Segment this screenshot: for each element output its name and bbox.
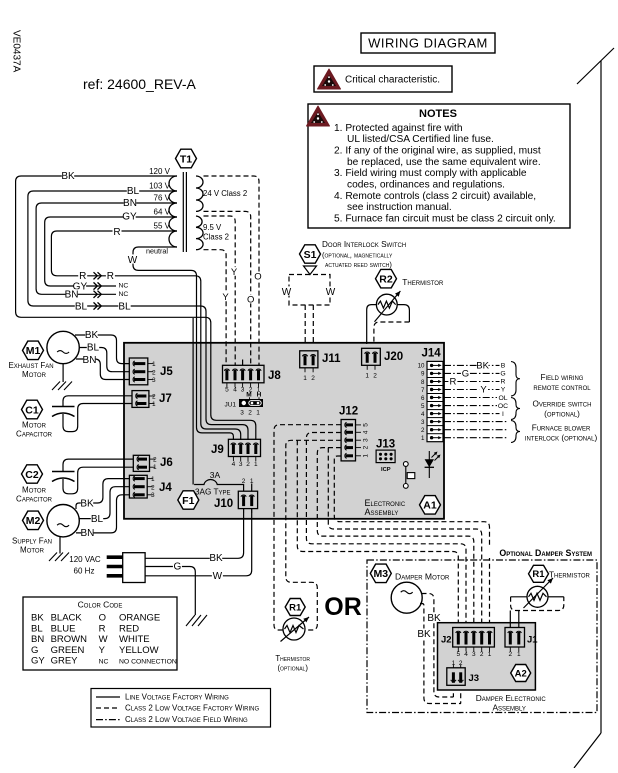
- 120VAC label: [69, 555, 101, 576]
- svg-text:Line Voltage Factory Wiring: Line Voltage Factory Wiring: [125, 693, 229, 702]
- wire M3 BK to J3 pin2: [420, 604, 461, 704]
- jumper JU1: [224, 392, 263, 417]
- 120VAC plug: [107, 553, 145, 583]
- svg-text:Damper Motor: Damper Motor: [395, 572, 450, 582]
- svg-text:3: 3: [421, 419, 425, 426]
- svg-text:Override switch: Override switch: [533, 400, 592, 409]
- neutral label: [146, 247, 168, 256]
- svg-text:1: 1: [250, 478, 254, 485]
- capacitor C2 designator: [22, 465, 43, 483]
- svg-text:9.5 V: 9.5 V: [203, 223, 222, 232]
- M1 label: [8, 361, 53, 379]
- capacitor C2: [52, 472, 75, 482]
- svg-text:7: 7: [421, 387, 425, 394]
- exhaust fan motor M1: [47, 331, 79, 363]
- label O lower: [246, 295, 255, 306]
- svg-text:BK: BK: [31, 613, 44, 624]
- connector J5: [129, 358, 173, 385]
- svg-text:JU1: JU1: [224, 402, 236, 409]
- label M1 BK: [85, 329, 99, 340]
- thermistor R2 designator: [376, 269, 397, 288]
- svg-text:4: 4: [363, 430, 370, 434]
- svg-text:3: 3: [240, 410, 244, 417]
- label R J14-8: [448, 377, 457, 388]
- svg-text:3: 3: [239, 461, 243, 468]
- svg-text:2: 2: [480, 651, 484, 658]
- svg-text:4: 4: [464, 651, 468, 658]
- wire S1 to J11 pin2: [312, 305, 314, 344]
- svg-text:RED: RED: [119, 623, 139, 634]
- J8 pin3 stub: [242, 360, 244, 366]
- svg-text:GY: GY: [31, 656, 45, 667]
- wire BK branch to fuse F1: [192, 318, 194, 485]
- R1 label: [275, 654, 310, 673]
- capacitor C1 designator: [22, 400, 43, 419]
- svg-text:G: G: [174, 562, 182, 573]
- svg-text:Motor: Motor: [22, 486, 47, 495]
- wire branch J12 pin3 to damper J2 pin5: [297, 440, 458, 627]
- wire BN 76V primary tap (NC): [36, 203, 177, 294]
- svg-text:Assembly: Assembly: [365, 507, 399, 517]
- svg-text:76 V: 76 V: [154, 194, 171, 203]
- svg-text:BN: BN: [65, 290, 79, 301]
- wire GY 64V primary tap (NC): [45, 217, 177, 286]
- connector row R-R: [78, 271, 115, 282]
- svg-text:2: 2: [459, 660, 463, 667]
- svg-text:NC: NC: [118, 283, 128, 290]
- svg-text:R: R: [501, 379, 506, 386]
- label M2 BK: [80, 498, 94, 509]
- svg-text:2: 2: [152, 369, 156, 376]
- svg-text:OC: OC: [498, 403, 508, 410]
- transformer T1: [169, 172, 203, 252]
- svg-text:5: 5: [363, 423, 370, 427]
- connector J2: [441, 628, 494, 659]
- thermistor R1 symbol: [281, 617, 310, 642]
- svg-text:G: G: [31, 645, 38, 656]
- svg-text:3: 3: [472, 651, 476, 658]
- brace override switch: [511, 398, 591, 420]
- ground M2: [49, 537, 69, 562]
- title box WIRING DIAGRAM: [361, 33, 495, 53]
- wire M2 BL to J4 pin2: [79, 487, 129, 519]
- wire plug G to ground: [145, 567, 195, 616]
- svg-text:Class 2: Class 2: [203, 233, 229, 242]
- label GY: [122, 211, 137, 222]
- supply fan motor M2: [47, 505, 79, 537]
- svg-text:be replaced, use the same equi: be replaced, use the same equivalent wir…: [347, 157, 541, 168]
- svg-text:B: B: [501, 363, 506, 370]
- svg-text:OR: OR: [324, 593, 362, 621]
- svg-text:1: 1: [153, 464, 157, 471]
- svg-text:Damper Electronic: Damper Electronic: [476, 693, 547, 703]
- svg-text:Class 2 Low Voltage Field Wiri: Class 2 Low Voltage Field Wiring: [125, 715, 248, 724]
- ground M1: [52, 364, 72, 390]
- primary tap voltage labels: [149, 167, 171, 231]
- svg-text:O: O: [254, 272, 261, 283]
- svg-text:R1: R1: [532, 569, 545, 580]
- wire J12 pin5 to optional thermistor R1 left: [274, 425, 341, 630]
- wire C1 top to J7 pin2: [63, 396, 132, 407]
- svg-text:Motor: Motor: [22, 421, 47, 430]
- svg-text:Capacitor: Capacitor: [16, 430, 53, 439]
- svg-text:BL: BL: [127, 186, 140, 197]
- svg-text:M2: M2: [26, 515, 41, 527]
- connector J8: [223, 365, 282, 393]
- wire R 55V primary tap: [51, 231, 240, 440]
- LED D1: [425, 451, 441, 478]
- svg-text:Motor: Motor: [20, 546, 45, 555]
- svg-text:BK: BK: [61, 171, 75, 182]
- svg-text:1: 1: [488, 651, 492, 658]
- svg-text:R1: R1: [289, 602, 302, 613]
- brace field wiring remote control: [511, 362, 591, 397]
- wire BK 120V primary tap: [16, 176, 256, 440]
- connector row BN-NC: [65, 289, 131, 300]
- R2 label: [402, 277, 444, 287]
- svg-text:Exhaust Fan: Exhaust Fan: [8, 361, 53, 370]
- svg-text:J10: J10: [214, 498, 233, 510]
- label BN: [123, 198, 137, 209]
- svg-text:103 V: 103 V: [149, 182, 171, 191]
- svg-text:2: 2: [246, 461, 250, 468]
- svg-text:Critical characteristic.: Critical characteristic.: [345, 75, 440, 86]
- fuse F1: [194, 470, 244, 497]
- connector J4: [129, 475, 172, 499]
- svg-text:BROWN: BROWN: [51, 634, 88, 645]
- damper R1 label: [549, 571, 591, 580]
- svg-text:1: 1: [363, 454, 370, 458]
- svg-text:BN: BN: [80, 528, 94, 539]
- label Y lower: [221, 292, 230, 303]
- label plug W: [212, 571, 223, 582]
- svg-text:64 V: 64 V: [154, 208, 171, 217]
- svg-text:BL: BL: [87, 342, 100, 353]
- wire R2 right lead to J20 pin2: [397, 305, 409, 322]
- svg-text:WHITE: WHITE: [119, 634, 150, 645]
- damper thermistor R1 leads: [511, 596, 527, 598]
- svg-text:2: 2: [508, 651, 512, 658]
- critical characteristic box: [314, 66, 452, 92]
- wire M1 BL to J5 pin2: [79, 348, 129, 372]
- svg-text:Thermistor: Thermistor: [402, 277, 444, 287]
- J10 pin1 stub: [251, 484, 253, 492]
- svg-text:J20: J20: [384, 351, 403, 363]
- svg-text:BN: BN: [83, 355, 97, 366]
- svg-text:2: 2: [153, 457, 157, 464]
- label M2 BN: [80, 528, 94, 539]
- svg-text:4: 4: [233, 387, 237, 394]
- svg-text:Y: Y: [222, 292, 229, 303]
- connector J7: [132, 391, 172, 408]
- electronic assembly board A1: [124, 343, 444, 519]
- svg-text:BLUE: BLUE: [51, 623, 76, 634]
- svg-text:Y: Y: [480, 385, 487, 396]
- wire M3 BK to J3 pin1: [422, 594, 454, 698]
- svg-text:4: 4: [232, 461, 236, 468]
- svg-text:BK: BK: [85, 330, 99, 341]
- svg-text:3: 3: [152, 377, 156, 384]
- svg-text:1. Protected against fire with: 1. Protected against fire with: [334, 123, 463, 134]
- svg-text:NOTES: NOTES: [419, 108, 457, 120]
- svg-text:O: O: [247, 295, 254, 306]
- svg-text:W: W: [213, 571, 223, 582]
- svg-text:W: W: [99, 634, 108, 645]
- svg-text:1: 1: [303, 375, 307, 382]
- svg-text:actuated reed switch): actuated reed switch): [325, 260, 392, 269]
- svg-text:NO CONNECTION: NO CONNECTION: [119, 659, 177, 666]
- svg-text:GY: GY: [122, 211, 137, 222]
- svg-text:5. Furnace fan circuit must be: 5. Furnace fan circuit must be class 2 c…: [334, 213, 556, 224]
- svg-text:J5: J5: [160, 366, 173, 378]
- svg-text:2: 2: [242, 478, 246, 485]
- svg-text:1: 1: [152, 361, 156, 368]
- color code box: [23, 597, 177, 670]
- svg-text:24 V Class 2: 24 V Class 2: [203, 189, 247, 198]
- svg-text:BL: BL: [31, 623, 43, 634]
- M3 label: [395, 572, 450, 582]
- svg-text:BN: BN: [123, 198, 137, 209]
- transformer T1 designator: [176, 149, 197, 168]
- connector J3: [447, 660, 479, 685]
- svg-text:J11: J11: [322, 353, 341, 365]
- wire J12 pin1 to damper J2 pin1: [334, 456, 489, 628]
- svg-text:W: W: [326, 287, 336, 298]
- S1 reed switch symbol: [289, 266, 330, 305]
- svg-text:BL: BL: [118, 301, 131, 312]
- label BK: [61, 170, 75, 181]
- label M3 BK lower: [417, 629, 431, 640]
- svg-text:YELLOW: YELLOW: [119, 645, 159, 656]
- wire M2 BK to J4 pin1: [76, 479, 129, 509]
- svg-text:55 V: 55 V: [154, 222, 171, 231]
- wire O 24V top to J8 pin1: [204, 176, 260, 365]
- svg-text:J8: J8: [268, 370, 281, 382]
- wire M1 BK to J5 pin1: [75, 335, 129, 364]
- wire W neutral: [133, 247, 233, 440]
- svg-text:Door Interlock Switch: Door Interlock Switch: [322, 240, 406, 249]
- wire plug BK to J10 pin2: [145, 509, 244, 559]
- wire M2 BN to J4 pin3: [76, 495, 129, 533]
- svg-text:ICP: ICP: [381, 467, 391, 473]
- svg-text:ORANGE: ORANGE: [119, 613, 160, 624]
- damper assembly label: [476, 693, 547, 713]
- svg-text:1: 1: [365, 373, 369, 380]
- svg-text:Class 2 Low Voltage Factory Wi: Class 2 Low Voltage Factory Wiring: [125, 704, 259, 713]
- svg-text:A1: A1: [423, 500, 437, 512]
- wire O 24V bottom to J8 pin2: [204, 211, 251, 365]
- svg-text:BN: BN: [31, 634, 44, 645]
- svg-text:R: R: [99, 623, 106, 634]
- wire J12 pin4 to damper J2 pin4: [306, 433, 466, 628]
- wires to J1: [509, 611, 511, 629]
- connector J13: [376, 439, 395, 474]
- svg-text:5: 5: [456, 651, 460, 658]
- svg-text:GREEN: GREEN: [51, 645, 85, 656]
- label plug BK: [209, 553, 223, 564]
- label BK J14-10: [476, 361, 489, 372]
- connector J9: [211, 439, 261, 468]
- OR text: [324, 593, 362, 621]
- label R: [113, 226, 122, 237]
- svg-text:M1: M1: [26, 345, 41, 357]
- connector J11: [300, 351, 341, 382]
- capacitor C1: [52, 407, 75, 417]
- svg-text:BK: BK: [417, 629, 431, 640]
- svg-text:1: 1: [421, 435, 425, 442]
- svg-text:I: I: [502, 411, 504, 418]
- ref label: [83, 76, 197, 92]
- svg-text:W: W: [282, 287, 292, 298]
- label Y J14-7: [479, 385, 488, 396]
- svg-text:Optional Damper System: Optional Damper System: [499, 548, 592, 558]
- svg-text:J12: J12: [339, 406, 358, 418]
- svg-text:Thermistor: Thermistor: [275, 654, 310, 663]
- damper motor M3: [391, 582, 422, 613]
- wire R2 left lead to J20 pin1: [367, 305, 377, 344]
- J14 field wiring dash-dot leads: [444, 365, 508, 437]
- svg-text:3: 3: [363, 438, 370, 442]
- connector row BL-BL: [75, 301, 131, 312]
- label G J14-9: [461, 369, 470, 380]
- svg-text:5: 5: [225, 387, 229, 394]
- svg-text:Furnace blower: Furnace blower: [532, 424, 591, 433]
- sheet id VE0437A: [11, 30, 22, 73]
- svg-text:UL listed/CSA Certified line f: UL listed/CSA Certified line fuse.: [347, 134, 494, 145]
- svg-text:NC: NC: [118, 291, 128, 298]
- svg-text:4: 4: [421, 411, 425, 418]
- optional damper system title: [488, 546, 594, 558]
- svg-text:3. Field wiring must comply wi: 3. Field wiring must comply with applica…: [334, 168, 527, 179]
- svg-text:O: O: [99, 613, 106, 624]
- wire Y 9.5V bottom to J8 pin5: [204, 250, 227, 366]
- damper thermistor R1 designator: [529, 565, 549, 582]
- label O upper: [254, 272, 263, 283]
- assembly A1 designator: [420, 496, 441, 514]
- svg-text:Supply Fan: Supply Fan: [12, 537, 52, 546]
- svg-text:120 V: 120 V: [149, 167, 171, 176]
- svg-text:WIRING DIAGRAM: WIRING DIAGRAM: [368, 36, 488, 51]
- fuse F1 designator: [178, 491, 199, 509]
- svg-text:2: 2: [151, 484, 155, 491]
- label plug G: [173, 561, 182, 572]
- pushbutton SW: [403, 462, 414, 489]
- connector J14: [418, 348, 443, 442]
- wire C1 bottom to J7 pin1: [63, 404, 132, 432]
- svg-text:NC: NC: [99, 659, 109, 666]
- svg-text:1: 1: [151, 476, 155, 483]
- thermistor R1 designator: [285, 599, 305, 616]
- label W left: [281, 286, 292, 297]
- wire J12 pin2 to damper J2 pin3: [317, 448, 474, 628]
- svg-text:see instruction manual.: see instruction manual.: [347, 202, 452, 213]
- svg-text:C2: C2: [25, 469, 39, 481]
- notes box: [307, 104, 571, 228]
- svg-text:2: 2: [421, 427, 425, 434]
- svg-text:G: G: [462, 369, 469, 380]
- optional damper system enclosure: [367, 560, 597, 713]
- svg-text:1: 1: [152, 401, 156, 408]
- svg-text:J7: J7: [159, 393, 172, 405]
- connector J1: [505, 628, 538, 659]
- svg-text:J9: J9: [211, 444, 224, 456]
- motor M2 designator: [23, 511, 44, 529]
- svg-text:remote control: remote control: [533, 383, 591, 392]
- connector J20: [362, 348, 404, 379]
- svg-text:R: R: [113, 227, 120, 238]
- label BL: [127, 185, 140, 196]
- svg-text:Capacitor: Capacitor: [16, 495, 53, 504]
- secondary labels: [203, 189, 247, 242]
- connector J6: [133, 455, 172, 471]
- svg-text:J14: J14: [422, 348, 442, 360]
- svg-text:Motor: Motor: [22, 370, 47, 379]
- svg-text:BK: BK: [476, 361, 489, 372]
- svg-text:2: 2: [373, 373, 377, 380]
- svg-text:3: 3: [151, 492, 155, 499]
- wire J12 pin3 to optional thermistor R1 right: [286, 440, 341, 630]
- damper thermistor dashed box: [511, 597, 564, 611]
- ground symbol G: [186, 615, 207, 626]
- svg-text:2. If any of the original wire: 2. If any of the original wire, as suppl…: [334, 146, 541, 157]
- svg-text:J4: J4: [159, 482, 172, 494]
- legend box: [91, 689, 271, 728]
- label M2 BL: [91, 514, 104, 525]
- svg-text:neutral: neutral: [146, 247, 168, 256]
- assembly A2 designator: [511, 665, 531, 682]
- svg-text:OL: OL: [498, 395, 507, 402]
- svg-text:BK: BK: [209, 553, 223, 564]
- svg-text:BLACK: BLACK: [51, 613, 83, 624]
- label Y upper: [230, 267, 239, 278]
- svg-text:R: R: [449, 377, 456, 388]
- svg-text:Thermistor: Thermistor: [549, 571, 591, 580]
- svg-text:BL: BL: [91, 514, 104, 525]
- thermistor R2 symbol: [375, 291, 401, 322]
- label W right: [325, 286, 336, 297]
- motor M1 designator: [23, 341, 44, 360]
- wire plug W to J10 pin1: [145, 509, 252, 576]
- damper motor M3 designator: [370, 564, 391, 583]
- connector row GY-NC: [73, 281, 131, 292]
- svg-text:Y: Y: [99, 645, 106, 656]
- svg-text:2: 2: [363, 445, 370, 449]
- C1 label: [16, 421, 53, 439]
- svg-text:GREY: GREY: [51, 656, 79, 667]
- svg-text:(optional): (optional): [277, 664, 308, 673]
- connector J10: [214, 478, 258, 513]
- svg-text:VE0437A: VE0437A: [11, 30, 22, 73]
- wire M1 BN to J5 pin3: [76, 359, 129, 380]
- svg-text:R: R: [107, 271, 114, 282]
- wire S1 to J11 pin1: [304, 305, 306, 344]
- svg-text:W: W: [128, 255, 138, 266]
- svg-text:J13: J13: [376, 439, 395, 451]
- svg-text:4. Remote controls (class 2 ci: 4. Remote controls (class 2 circuit) ava…: [334, 191, 536, 202]
- svg-text:ref: 24600_REV-A: ref: 24600_REV-A: [83, 76, 197, 92]
- connector J12 body: [339, 406, 370, 461]
- svg-text:1: 1: [256, 410, 260, 417]
- label M1 BN: [83, 354, 97, 365]
- svg-text:Y: Y: [501, 387, 506, 394]
- label M3 BK upper: [427, 613, 441, 624]
- label W neutral: [127, 254, 138, 265]
- svg-text:codes, ordinances and regulati: codes, ordinances and regulations.: [347, 179, 505, 190]
- terminal letters: [497, 362, 509, 418]
- switch S1 designator: [300, 245, 321, 263]
- sheet border: [574, 48, 614, 768]
- wire C2 top to J6 pin2: [63, 459, 133, 471]
